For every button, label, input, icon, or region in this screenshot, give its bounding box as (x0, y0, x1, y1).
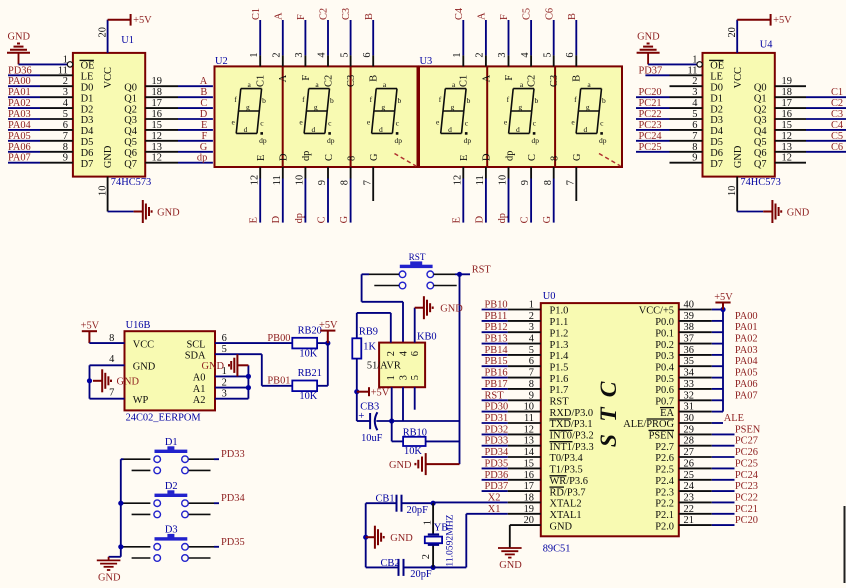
svg-text:5: 5 (339, 52, 350, 57)
svg-text:PA01: PA01 (735, 322, 758, 333)
svg-text:GND: GND (787, 207, 810, 218)
svg-text:A0: A0 (193, 373, 206, 384)
svg-text:PB13: PB13 (485, 334, 508, 345)
svg-text:Q1: Q1 (754, 93, 767, 104)
svg-text:RST: RST (409, 252, 426, 262)
svg-text:PA00: PA00 (735, 311, 758, 322)
svg-text:dp: dp (197, 153, 207, 164)
svg-text:74HC573: 74HC573 (740, 177, 780, 188)
svg-text:PD37: PD37 (639, 65, 663, 76)
svg-text:7: 7 (362, 180, 373, 185)
svg-text:+5V: +5V (319, 320, 338, 331)
svg-text:PA04: PA04 (735, 356, 759, 367)
svg-text:2: 2 (222, 377, 227, 388)
svg-text:11: 11 (475, 175, 486, 185)
svg-text:D: D (482, 153, 493, 161)
svg-text:A: A (200, 76, 208, 87)
svg-text:20pF: 20pF (407, 505, 429, 516)
svg-text:GND: GND (117, 377, 140, 388)
svg-text:RB9: RB9 (359, 327, 378, 338)
svg-text:PC23: PC23 (735, 481, 758, 492)
svg-text:10K: 10K (299, 348, 317, 359)
svg-text:G: G (542, 215, 553, 223)
svg-text:Q6: Q6 (754, 148, 767, 159)
svg-text:PB10: PB10 (485, 300, 508, 311)
svg-text:P2.1: P2.1 (655, 510, 674, 521)
svg-text:C3: C3 (346, 75, 357, 87)
svg-text:SDA: SDA (185, 350, 206, 361)
svg-text:PA02: PA02 (735, 334, 758, 345)
svg-text:F: F (499, 14, 510, 20)
svg-text:GND: GND (157, 207, 180, 218)
svg-text:WP: WP (133, 395, 149, 406)
svg-text:INT0/P3.2: INT0/P3.2 (550, 431, 594, 442)
svg-text:D: D (279, 153, 290, 161)
svg-text:Q4: Q4 (754, 126, 768, 137)
svg-text:6: 6 (410, 351, 421, 356)
svg-text:PC24: PC24 (735, 470, 759, 481)
svg-text:B: B (364, 13, 375, 20)
svg-text:10K: 10K (404, 446, 422, 457)
svg-text:Q3: Q3 (754, 115, 767, 126)
svg-text:B: B (567, 13, 578, 20)
svg-text:10: 10 (97, 186, 108, 196)
svg-text:d: d (584, 125, 588, 134)
svg-text:15: 15 (782, 120, 792, 131)
svg-text:F: F (301, 75, 312, 81)
svg-text:+5V: +5V (773, 15, 792, 26)
svg-text:Q2: Q2 (754, 104, 767, 115)
svg-text:d: d (379, 125, 383, 134)
svg-text:RB21: RB21 (298, 368, 322, 379)
svg-text:20pF: 20pF (410, 569, 432, 580)
svg-text:PC26: PC26 (735, 447, 758, 458)
svg-text:Q6: Q6 (124, 148, 137, 159)
svg-text:P0.1: P0.1 (655, 328, 674, 339)
svg-text:GND: GND (390, 533, 413, 544)
svg-text:A: A (278, 74, 289, 82)
svg-text:P2.3: P2.3 (655, 487, 674, 498)
svg-text:PA04: PA04 (8, 120, 32, 131)
svg-text:PC20: PC20 (639, 87, 662, 98)
svg-text:10uF: 10uF (361, 433, 383, 444)
svg-text:P2.2: P2.2 (655, 499, 674, 510)
svg-text:16: 16 (782, 109, 792, 120)
svg-text:EA: EA (660, 408, 674, 419)
svg-text:3: 3 (222, 389, 227, 400)
svg-text:PA05: PA05 (735, 368, 758, 379)
svg-text:20: 20 (97, 27, 108, 37)
svg-text:4: 4 (109, 354, 115, 365)
svg-text:C3: C3 (831, 109, 843, 120)
svg-text:PB12: PB12 (485, 322, 508, 333)
svg-text:11: 11 (272, 175, 283, 185)
svg-text:VCC/+5: VCC/+5 (639, 306, 674, 317)
svg-text:C2: C2 (319, 8, 330, 20)
svg-text:PC22: PC22 (639, 109, 662, 120)
svg-text:D6: D6 (81, 148, 94, 159)
svg-text:dp: dp (259, 136, 267, 145)
svg-text:RB10: RB10 (403, 427, 427, 438)
svg-text:P2.4: P2.4 (655, 476, 675, 487)
svg-text:E: E (256, 155, 267, 161)
svg-text:D6: D6 (710, 148, 723, 159)
svg-text:A: A (477, 12, 488, 20)
svg-text:C3: C3 (549, 75, 560, 87)
svg-text:D5: D5 (81, 137, 94, 148)
svg-text:g: g (518, 102, 522, 111)
svg-text:C1: C1 (251, 8, 262, 20)
svg-text:8: 8 (543, 180, 554, 185)
svg-text:PA07: PA07 (8, 153, 31, 164)
svg-text:GND: GND (637, 31, 660, 42)
svg-text:P1.6: P1.6 (550, 374, 569, 385)
svg-text:1: 1 (249, 52, 260, 57)
svg-text:OE: OE (710, 61, 724, 72)
svg-text:12: 12 (782, 153, 792, 164)
svg-text:E: E (201, 120, 207, 131)
svg-text:C1: C1 (459, 75, 470, 87)
svg-text:PD37: PD37 (485, 481, 509, 492)
svg-text:D3: D3 (81, 115, 94, 126)
svg-text:b: b (602, 96, 606, 105)
svg-text:PB00: PB00 (267, 333, 290, 344)
svg-text:g: g (314, 102, 318, 111)
svg-text:4: 4 (317, 52, 328, 58)
svg-text:Q0: Q0 (124, 82, 137, 93)
svg-text:GND: GND (8, 31, 31, 42)
svg-text:11.0592MHZ: 11.0592MHZ (444, 514, 455, 566)
svg-text:SCL: SCL (186, 339, 205, 350)
svg-text:D1: D1 (165, 437, 178, 448)
svg-text:4: 4 (520, 52, 531, 58)
svg-text:C: C (520, 216, 531, 223)
svg-text:P1.7: P1.7 (550, 385, 569, 396)
svg-text:D: D (200, 109, 208, 120)
svg-text:RD/P3.7: RD/P3.7 (550, 487, 586, 498)
svg-text:2: 2 (475, 52, 486, 57)
svg-text:PC27: PC27 (735, 436, 758, 447)
svg-text:C2: C2 (323, 75, 334, 87)
svg-text:S: S (596, 434, 622, 447)
svg-text:3: 3 (497, 52, 508, 57)
svg-text:12: 12 (782, 131, 792, 142)
svg-text:D: D (271, 215, 282, 223)
svg-text:P1.5: P1.5 (550, 362, 569, 373)
svg-text:C1: C1 (256, 75, 267, 87)
svg-text:RXD/P3.0: RXD/P3.0 (550, 408, 594, 419)
svg-text:g: g (381, 102, 385, 111)
svg-text:D: D (474, 215, 485, 223)
svg-text:10: 10 (498, 175, 509, 185)
svg-text:PA06: PA06 (8, 142, 31, 153)
svg-text:16: 16 (152, 109, 162, 120)
svg-text:PB11: PB11 (485, 311, 508, 322)
svg-text:PA03: PA03 (735, 345, 758, 356)
svg-text:PD36: PD36 (485, 470, 509, 481)
svg-text:C5: C5 (522, 8, 533, 20)
svg-text:P2.0: P2.0 (655, 521, 674, 532)
svg-text:GND: GND (550, 521, 573, 532)
svg-text:PD35: PD35 (221, 537, 245, 548)
svg-text:PA02: PA02 (8, 98, 31, 109)
svg-text:2: 2 (272, 52, 283, 57)
svg-text:P0.0: P0.0 (655, 317, 674, 328)
svg-text:3: 3 (398, 375, 409, 380)
svg-text:PB15: PB15 (485, 356, 508, 367)
svg-text:PD36: PD36 (8, 65, 32, 76)
svg-text:P0.3: P0.3 (655, 351, 674, 362)
svg-text:12: 12 (452, 175, 463, 185)
svg-text:dp: dp (504, 151, 515, 161)
svg-text:PD33: PD33 (485, 436, 509, 447)
svg-text:6: 6 (362, 52, 373, 57)
svg-text:dp: dp (327, 136, 335, 145)
svg-text:U2: U2 (215, 56, 228, 67)
svg-text:C: C (324, 154, 335, 161)
svg-text:d: d (312, 125, 316, 134)
svg-text:Q1: Q1 (124, 93, 137, 104)
svg-text:RST: RST (485, 390, 505, 401)
svg-text:E: E (452, 217, 463, 223)
svg-text:XTAL1: XTAL1 (550, 510, 582, 521)
svg-text:12: 12 (249, 175, 260, 185)
svg-text:+5V: +5V (81, 321, 100, 332)
svg-text:P0.2: P0.2 (655, 340, 674, 351)
svg-text:51/AVR: 51/AVR (367, 360, 401, 371)
svg-text:PSEN: PSEN (735, 424, 761, 435)
svg-text:89C51: 89C51 (543, 544, 571, 555)
svg-text:PD34: PD34 (221, 493, 245, 504)
svg-text:24C02_EERPOM: 24C02_EERPOM (126, 412, 201, 423)
svg-text:g: g (586, 102, 590, 111)
svg-text:B: B (369, 75, 380, 82)
svg-text:E: E (249, 217, 260, 223)
svg-text:A: A (481, 74, 492, 82)
svg-text:18: 18 (152, 87, 162, 98)
svg-text:PA07: PA07 (735, 390, 758, 401)
svg-text:U0: U0 (543, 291, 556, 302)
svg-text:PD31: PD31 (485, 413, 509, 424)
svg-text:D4: D4 (81, 126, 95, 137)
svg-text:D3: D3 (710, 115, 723, 126)
svg-text:F: F (202, 131, 208, 142)
svg-text:P1.2: P1.2 (550, 328, 569, 339)
svg-text:U3: U3 (420, 56, 433, 67)
svg-text:Q7: Q7 (754, 159, 767, 170)
svg-text:XTAL2: XTAL2 (550, 499, 582, 510)
svg-text:D0: D0 (81, 82, 94, 93)
svg-text:D1: D1 (81, 93, 94, 104)
svg-text:X1: X1 (488, 504, 501, 515)
svg-text:PB16: PB16 (485, 368, 508, 379)
svg-text:B: B (200, 87, 207, 98)
svg-text:C2: C2 (527, 75, 538, 87)
svg-text:Q5: Q5 (124, 137, 137, 148)
svg-text:P1.0: P1.0 (550, 306, 569, 317)
svg-text:3: 3 (294, 52, 305, 57)
svg-text:10K: 10K (299, 391, 317, 402)
svg-text:GND: GND (98, 572, 121, 583)
svg-text:19: 19 (152, 76, 162, 87)
svg-text:VCC: VCC (103, 67, 114, 88)
svg-text:RST: RST (472, 264, 492, 275)
svg-text:PD35: PD35 (485, 458, 509, 469)
svg-text:Q7: Q7 (124, 159, 137, 170)
svg-text:ALE: ALE (724, 413, 744, 424)
svg-text:5: 5 (410, 375, 421, 380)
svg-text:GND: GND (133, 362, 156, 373)
svg-text:PD34: PD34 (485, 447, 509, 458)
svg-text:8: 8 (109, 333, 114, 344)
svg-text:LE: LE (81, 72, 94, 83)
svg-text:9: 9 (317, 180, 328, 185)
svg-text:PC21: PC21 (639, 98, 662, 109)
svg-text:PC24: PC24 (639, 131, 663, 142)
svg-text:+5V: +5V (714, 292, 733, 303)
svg-text:8: 8 (346, 156, 357, 161)
svg-text:B: B (572, 75, 583, 82)
svg-text:D1: D1 (710, 93, 723, 104)
svg-text:1: 1 (452, 52, 463, 57)
svg-text:7: 7 (565, 180, 576, 185)
svg-text:C: C (527, 154, 538, 161)
svg-text:CB2: CB2 (381, 558, 400, 569)
svg-text:1: 1 (63, 54, 68, 65)
svg-text:P0.5: P0.5 (655, 374, 674, 385)
svg-text:15: 15 (152, 120, 162, 131)
svg-text:b: b (535, 96, 539, 105)
svg-text:F: F (296, 14, 307, 20)
svg-text:D2: D2 (81, 104, 94, 115)
svg-text:13: 13 (782, 142, 792, 153)
svg-text:INT1/P3.3: INT1/P3.3 (550, 442, 594, 453)
svg-text:b: b (262, 96, 266, 105)
svg-text:RST: RST (550, 397, 570, 408)
svg-text:Q5: Q5 (754, 137, 767, 148)
svg-text:C: C (200, 98, 207, 109)
svg-text:b: b (467, 96, 471, 105)
svg-text:PA01: PA01 (8, 87, 31, 98)
svg-text:dp: dp (301, 151, 312, 161)
svg-text:PC20: PC20 (735, 515, 758, 526)
svg-text:D4: D4 (710, 126, 724, 137)
svg-text:10: 10 (727, 186, 738, 196)
svg-text:12: 12 (152, 131, 162, 142)
svg-text:C3: C3 (341, 8, 352, 20)
svg-text:P1.3: P1.3 (550, 340, 569, 351)
svg-text:P1.4: P1.4 (550, 351, 570, 362)
svg-text:P0.6: P0.6 (655, 385, 674, 396)
svg-text:C5: C5 (831, 131, 843, 142)
svg-text:2: 2 (386, 351, 397, 356)
svg-text:PA03: PA03 (8, 109, 31, 120)
svg-text:5: 5 (222, 344, 227, 355)
svg-text:+5V: +5V (371, 387, 390, 398)
svg-text:19: 19 (782, 76, 792, 87)
svg-text:C1: C1 (831, 87, 843, 98)
svg-text:P1.1: P1.1 (550, 317, 569, 328)
svg-text:PC22: PC22 (735, 492, 758, 503)
svg-text:GND: GND (201, 361, 224, 372)
svg-text:PD33: PD33 (221, 449, 245, 460)
svg-text:PC21: PC21 (735, 504, 758, 515)
svg-text:PB01: PB01 (267, 375, 290, 386)
svg-text:T1/P3.5: T1/P3.5 (550, 465, 583, 476)
svg-text:G: G (339, 215, 350, 223)
svg-text:X2: X2 (488, 492, 501, 503)
svg-text:D7: D7 (710, 159, 723, 170)
svg-text:Q3: Q3 (124, 115, 137, 126)
svg-text:PC23: PC23 (639, 120, 662, 131)
svg-text:g: g (451, 102, 455, 111)
svg-text:d: d (516, 125, 520, 134)
svg-text:C: C (316, 216, 327, 223)
svg-text:12: 12 (152, 153, 162, 164)
svg-text:E: E (459, 155, 470, 161)
svg-text:LE: LE (710, 72, 723, 83)
svg-text:T: T (596, 406, 622, 422)
svg-text:20: 20 (727, 27, 738, 37)
svg-text:WR/P3.6: WR/P3.6 (550, 476, 588, 487)
svg-text:dp: dp (395, 136, 403, 145)
svg-text:dp: dp (464, 136, 472, 145)
svg-text:GND: GND (499, 560, 522, 571)
svg-text:C4: C4 (454, 7, 465, 20)
svg-text:C2: C2 (831, 98, 843, 109)
svg-text:G: G (572, 153, 583, 161)
svg-text:dp: dp (294, 213, 305, 223)
svg-text:+5V: +5V (133, 15, 152, 26)
svg-text:PC25: PC25 (639, 142, 662, 153)
svg-text:A1: A1 (193, 384, 206, 395)
svg-text:PA05: PA05 (8, 131, 31, 142)
svg-text:GND: GND (733, 145, 744, 168)
svg-text:TXD/P3.1: TXD/P3.1 (550, 419, 593, 430)
svg-text:9: 9 (520, 180, 531, 185)
svg-text:U4: U4 (760, 40, 774, 51)
svg-text:PB14: PB14 (485, 345, 509, 356)
svg-text:d: d (448, 125, 452, 134)
svg-text:7: 7 (109, 387, 114, 398)
svg-text:b: b (398, 96, 402, 105)
svg-text:d: d (244, 125, 248, 134)
svg-text:b: b (330, 96, 334, 105)
svg-text:8: 8 (340, 180, 351, 185)
svg-text:P0.7: P0.7 (655, 397, 674, 408)
svg-text:2: 2 (421, 554, 432, 559)
svg-text:Q0: Q0 (754, 82, 767, 93)
svg-text:CB1: CB1 (376, 494, 395, 505)
svg-text:GND: GND (440, 304, 463, 315)
svg-text:A2: A2 (193, 395, 206, 406)
svg-text:GND: GND (389, 460, 412, 471)
svg-text:74HC573: 74HC573 (111, 177, 151, 188)
svg-text:D7: D7 (81, 159, 94, 170)
svg-text:KB0: KB0 (417, 332, 437, 343)
svg-text:P2.7: P2.7 (655, 442, 674, 453)
svg-text:dp: dp (532, 136, 540, 145)
svg-text:C: C (596, 381, 622, 397)
svg-text:C6: C6 (544, 8, 555, 20)
svg-text:P0.4: P0.4 (655, 362, 675, 373)
svg-text:D5: D5 (710, 137, 723, 148)
svg-text:1: 1 (692, 54, 697, 65)
svg-text:P2.6: P2.6 (655, 453, 674, 464)
svg-text:PC25: PC25 (735, 458, 758, 469)
svg-text:10: 10 (295, 175, 306, 185)
svg-text:PSEN: PSEN (649, 431, 675, 442)
